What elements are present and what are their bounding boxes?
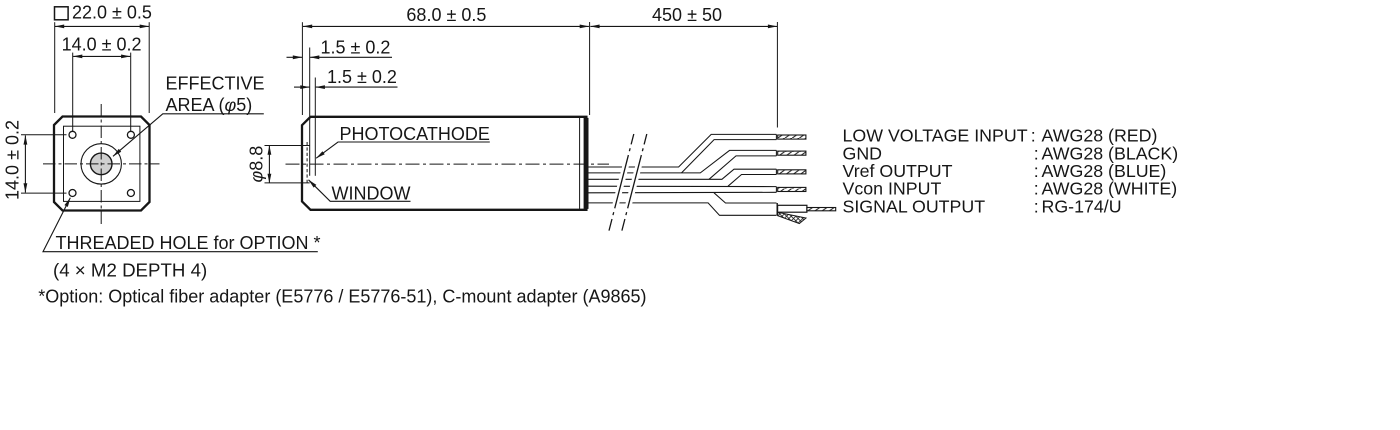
dimension 1.5 row1 lines bbox=[287, 56, 303, 58]
effective area circle bbox=[90, 153, 112, 175]
wire 3 bottom edge / wire 4 top edge shared line bbox=[589, 185, 777, 187]
wire 2 bottom edge / wire 3 top edge shared line bbox=[589, 169, 777, 179]
leader EFFECTIVE AREA line bbox=[113, 114, 264, 157]
leader WINDOW line bbox=[309, 180, 411, 202]
svg-text:PHOTOCATHODE: PHOTOCATHODE bbox=[340, 124, 490, 144]
wire 1 stripped end bbox=[778, 135, 806, 139]
svg-text:1.5 ± 0.2: 1.5 ± 0.2 bbox=[321, 37, 391, 57]
mounting hole bottom-left bbox=[69, 190, 76, 197]
coax jacket end plate bbox=[776, 203, 778, 215]
body face extension line bbox=[301, 22, 303, 115]
wire 3 stripped end bbox=[778, 170, 806, 174]
svg-text:14.0 ± 0.2: 14.0 ± 0.2 bbox=[62, 34, 142, 54]
svg-text:(4 × M2 DEPTH 4): (4 × M2 DEPTH 4) bbox=[53, 260, 207, 281]
svg-text:SIGNAL OUTPUT: SIGNAL OUTPUT bbox=[843, 196, 986, 216]
svg-text:THREADED HOLE for OPTION *: THREADED HOLE for OPTION * bbox=[56, 233, 321, 253]
dimension 14.0 left extension lines bbox=[21, 134, 67, 136]
wire 4 stripped end bbox=[778, 187, 806, 191]
front view horizontal center line bbox=[43, 163, 160, 165]
wire 1 top edge bbox=[589, 134, 777, 167]
leader THREADED HOLE line bbox=[43, 198, 318, 252]
mounting hole top-left bbox=[69, 131, 76, 138]
mounting hole top-right bbox=[127, 131, 134, 138]
dimension 22.0 line bbox=[55, 25, 149, 27]
dimension 450 right extension line bbox=[776, 22, 778, 128]
svg-text::: : bbox=[1034, 196, 1039, 216]
dimension 14.0 top line bbox=[73, 55, 130, 57]
svg-text:φ8.8: φ8.8 bbox=[247, 146, 267, 183]
wire 2 stripped end bbox=[778, 151, 806, 155]
dimension 22.0 extension lines bbox=[54, 22, 56, 113]
cable break marks bbox=[609, 134, 634, 231]
wire 4 bottom edge / coax top edge shared line bbox=[589, 191, 777, 194]
wire labels bbox=[843, 126, 1179, 217]
dimension 22.0 square symbol bbox=[55, 7, 69, 20]
side view center line bbox=[286, 163, 610, 165]
window inner surface line bbox=[309, 48, 311, 176]
dimension 14.0 top extension lines bbox=[72, 53, 74, 132]
mounting hole bottom-right bbox=[127, 190, 134, 197]
dimension 450 line bbox=[590, 25, 777, 27]
wire 1 bottom edge / wire 2 top edge shared line bbox=[589, 150, 777, 173]
side view body outline bbox=[302, 117, 586, 210]
svg-text:AREA (φ5): AREA (φ5) bbox=[166, 95, 253, 115]
coax center conductor bbox=[807, 208, 836, 211]
dimension phi 8.8 line bbox=[268, 146, 270, 183]
dimension 68.0 line bbox=[303, 25, 589, 27]
svg-text:14.0 ± 0.2: 14.0 ± 0.2 bbox=[3, 120, 23, 200]
dimension 1.5 row2 lines bbox=[294, 86, 310, 88]
window hidden dashed line bbox=[306, 142, 308, 183]
coax braid bbox=[778, 212, 806, 223]
coax bottom edge bbox=[589, 203, 777, 215]
svg-text:*Option: Optical fiber adapter: *Option: Optical fiber adapter (E5776 / … bbox=[38, 287, 646, 307]
svg-text:RG-174/U: RG-174/U bbox=[1042, 196, 1122, 216]
svg-text:EFFECTIVE: EFFECTIVE bbox=[166, 73, 265, 93]
side view end cap inner line bbox=[579, 118, 581, 209]
front view vertical center line bbox=[100, 104, 102, 225]
side view end cap bar bbox=[584, 118, 589, 209]
dimension phi 8.8 extension lines bbox=[265, 145, 310, 147]
front view inner square bbox=[64, 126, 140, 201]
coax dielectric bbox=[778, 205, 807, 212]
svg-text:1.5 ± 0.2: 1.5 ± 0.2 bbox=[327, 67, 397, 87]
wire end ticks bbox=[775, 134, 777, 139]
svg-text:450 ± 50: 450 ± 50 bbox=[652, 5, 722, 25]
svg-text:WINDOW: WINDOW bbox=[332, 183, 411, 203]
photocathode line bbox=[314, 78, 316, 176]
dimension 14.0 left line bbox=[24, 135, 26, 192]
window outer circle bbox=[81, 144, 121, 184]
svg-text:22.0 ± 0.5: 22.0 ± 0.5 bbox=[72, 3, 152, 23]
front view flange outline bbox=[54, 117, 150, 211]
svg-text:68.0 ± 0.5: 68.0 ± 0.5 bbox=[406, 5, 486, 25]
leader PHOTOCATHODE line bbox=[316, 142, 490, 158]
dimension 68.0 right extension line bbox=[589, 22, 591, 115]
